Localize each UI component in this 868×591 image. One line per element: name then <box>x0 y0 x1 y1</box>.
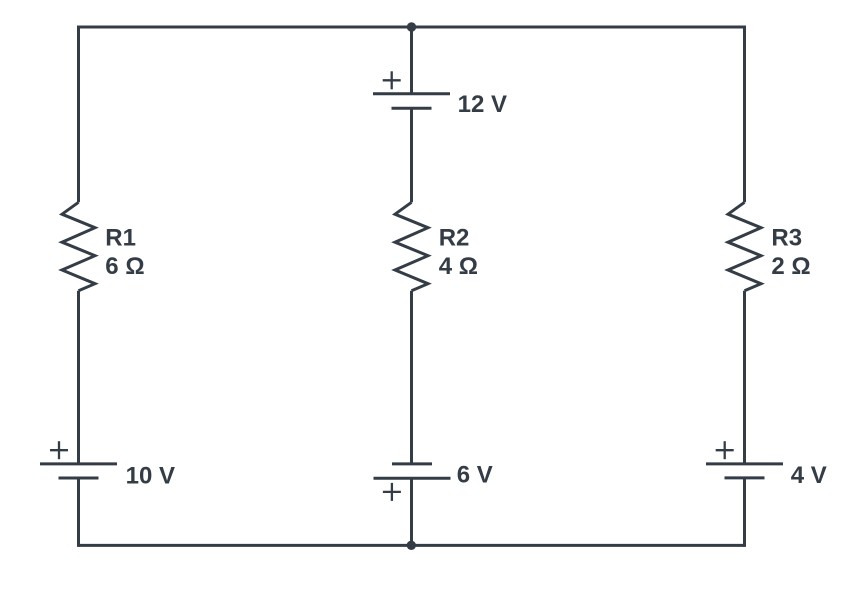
svg-text:10 V: 10 V <box>126 463 175 490</box>
svg-text:4 V: 4 V <box>791 462 827 489</box>
svg-text:R3: R3 <box>771 225 802 252</box>
svg-text:2 Ω: 2 Ω <box>771 253 810 280</box>
svg-text:6 Ω: 6 Ω <box>105 253 144 280</box>
svg-text:R2: R2 <box>439 225 470 252</box>
svg-text:R1: R1 <box>105 225 136 252</box>
svg-text:4 Ω: 4 Ω <box>439 253 478 280</box>
svg-text:12 V: 12 V <box>458 91 507 118</box>
svg-text:6 V: 6 V <box>457 462 493 489</box>
